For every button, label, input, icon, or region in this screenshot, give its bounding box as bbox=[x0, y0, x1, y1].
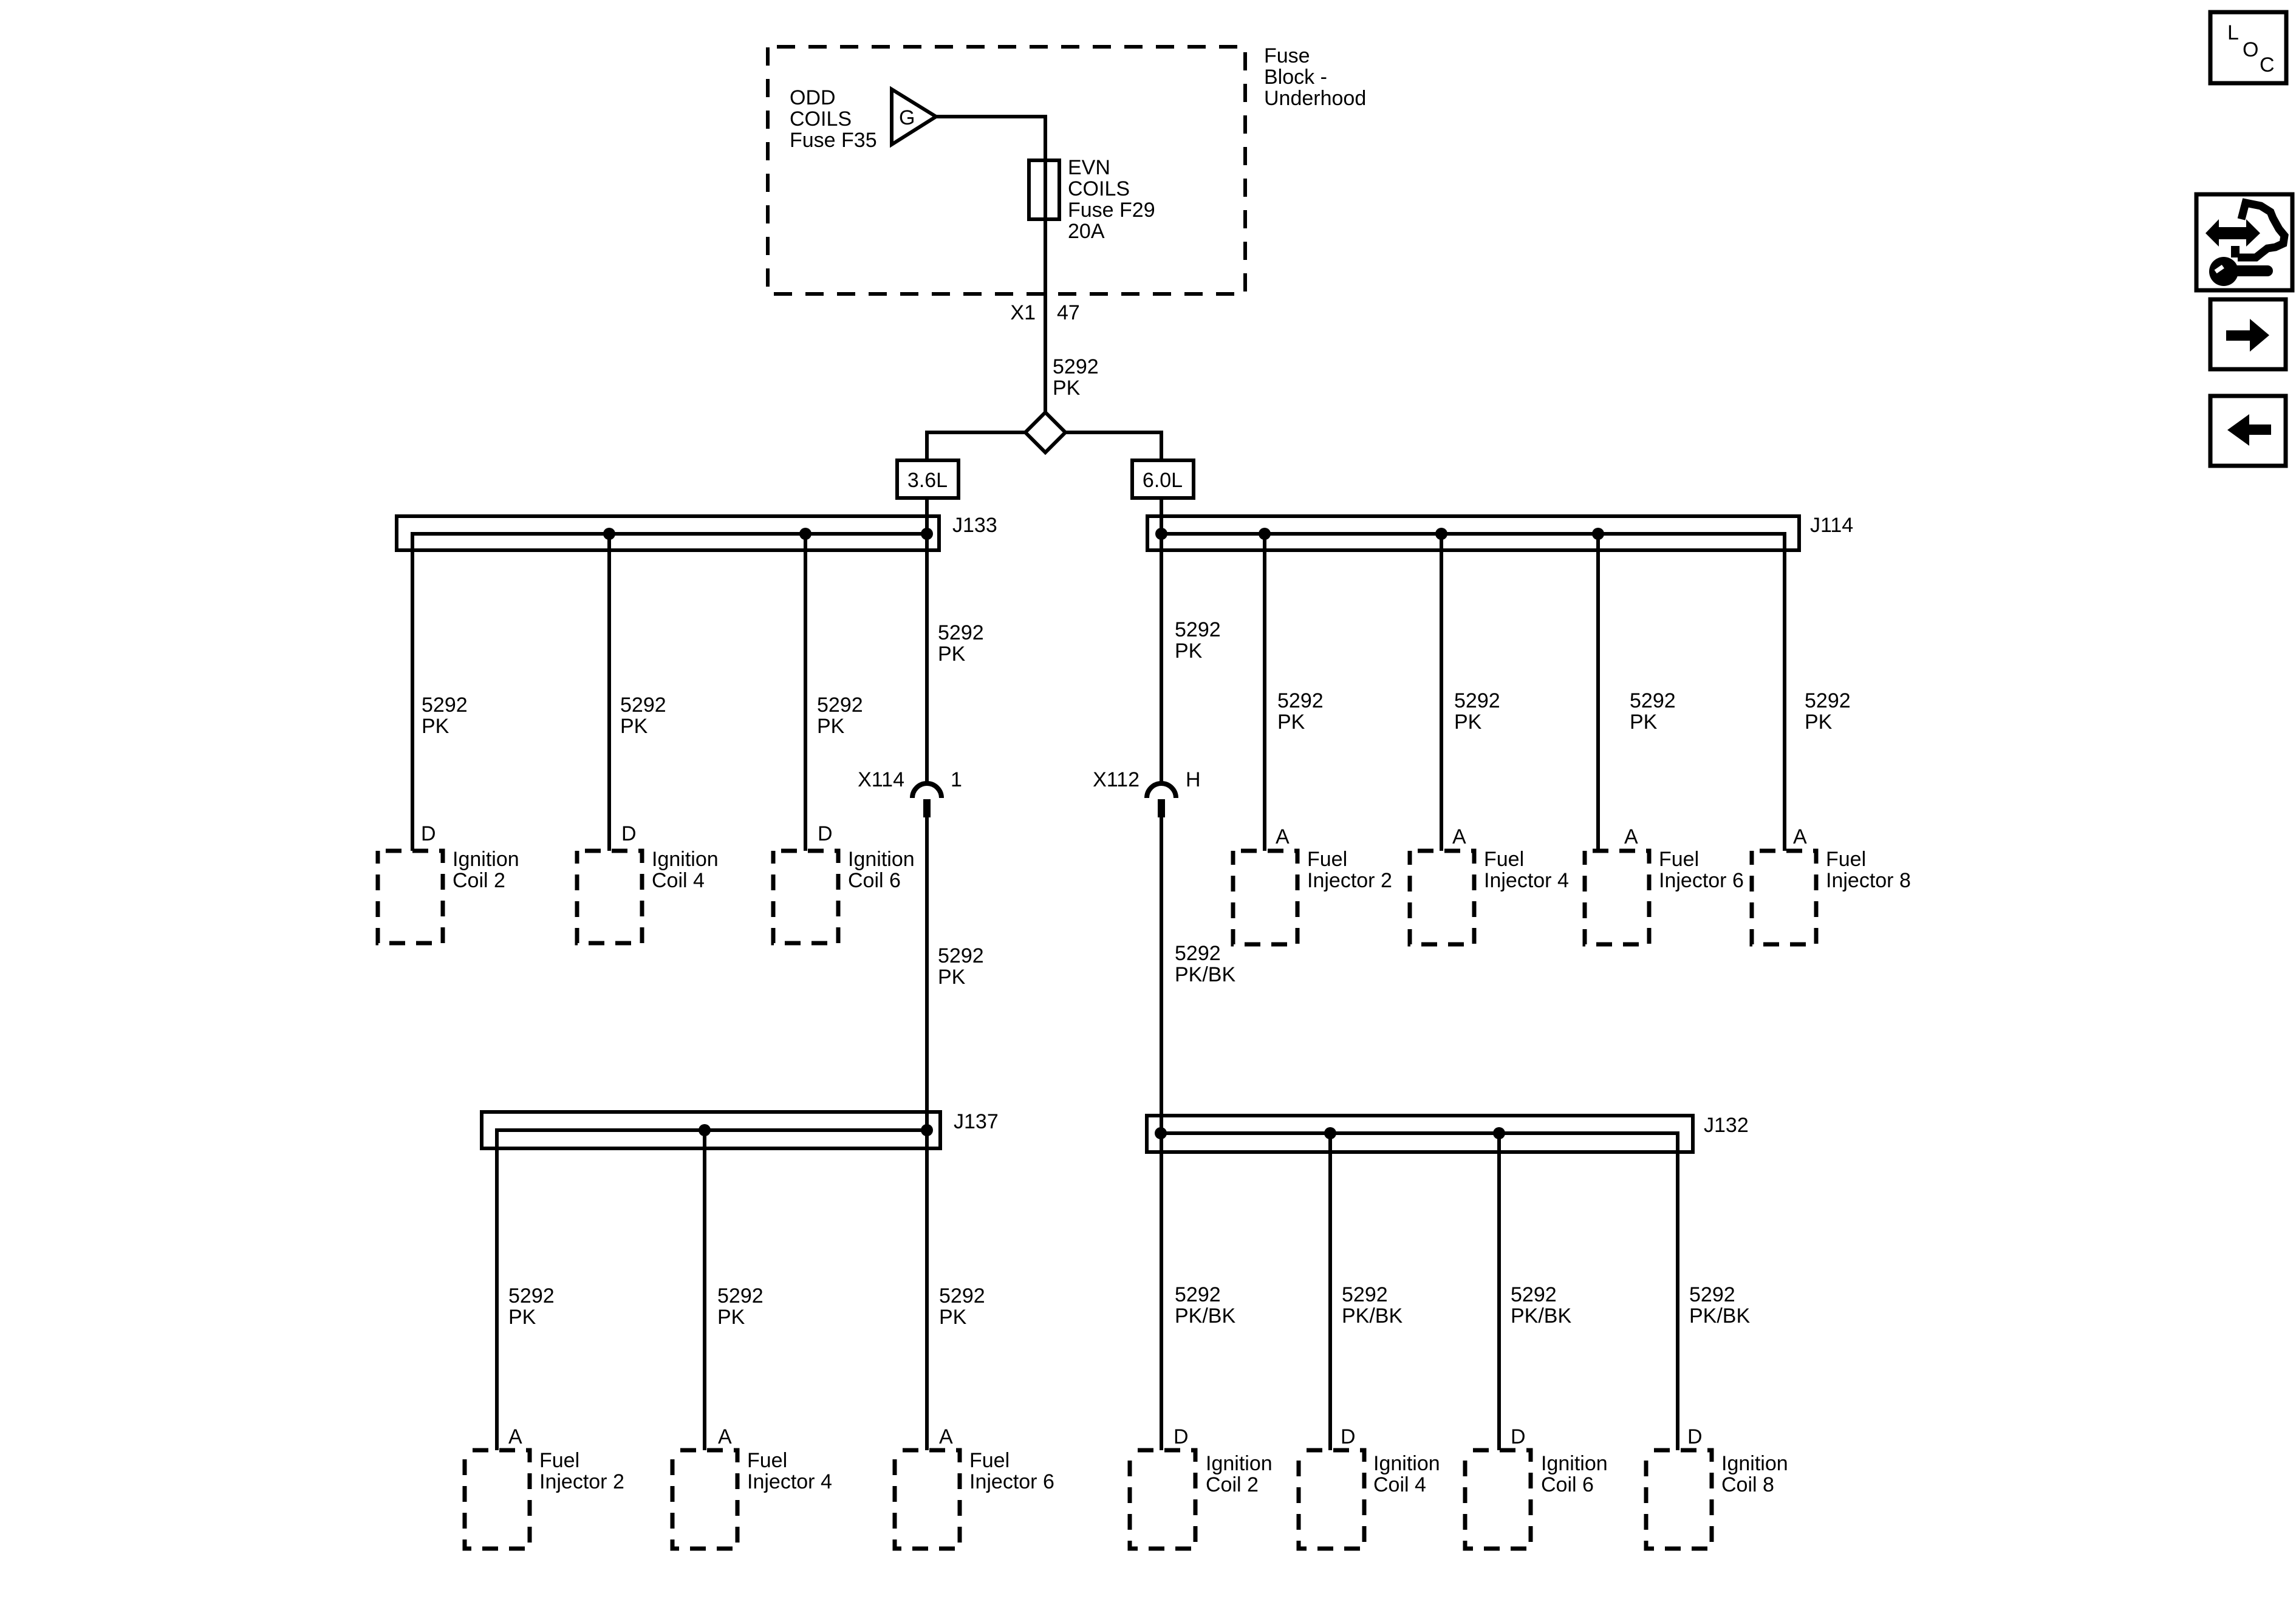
fuel injector 2 (dashed box) bbox=[1233, 851, 1297, 944]
svg-text:Fuel: Fuel bbox=[1826, 848, 1866, 871]
svg-text:PK/BK: PK/BK bbox=[1175, 1304, 1235, 1328]
wire label 5292 PK (J114 to X112 wire) bbox=[1175, 618, 1221, 663]
svg-text:5292: 5292 bbox=[1342, 1283, 1388, 1306]
svg-text:5292: 5292 bbox=[1630, 689, 1676, 712]
svg-text:Injector 2: Injector 2 bbox=[539, 1470, 624, 1493]
label: Fuse Block - Underhood bbox=[1264, 44, 1366, 110]
svg-text:PK/BK: PK/BK bbox=[1511, 1304, 1571, 1328]
svg-text:Ignition: Ignition bbox=[848, 848, 915, 871]
svg-text:Ignition: Ignition bbox=[1206, 1452, 1273, 1475]
wire label 5292 PK bbox=[717, 1284, 764, 1329]
icon: arrow left bbox=[2210, 396, 2286, 466]
svg-text:5292: 5292 bbox=[1175, 1283, 1221, 1306]
svg-text:Ignition: Ignition bbox=[1373, 1452, 1440, 1475]
svg-text:D: D bbox=[621, 822, 637, 845]
svg-text:PK: PK bbox=[817, 715, 845, 738]
svg-text:PK: PK bbox=[1053, 377, 1081, 400]
label: Fuel Injector 6 bbox=[969, 1449, 1054, 1493]
svg-text:D: D bbox=[818, 822, 833, 845]
svg-text:5292: 5292 bbox=[620, 694, 666, 717]
wire label 5292 PK (J133 to X114 wire) bbox=[938, 621, 984, 666]
svg-text:5292: 5292 bbox=[939, 1284, 985, 1307]
wire label 5292 PK bbox=[422, 694, 468, 738]
splice J114 bbox=[1147, 516, 1799, 851]
label: Fuel Injector 6 bbox=[1659, 848, 1744, 892]
svg-text:5292: 5292 bbox=[422, 694, 468, 717]
wire label 5292 PK/BK bbox=[1689, 1283, 1750, 1328]
wire label 5292 PK/BK bbox=[1342, 1283, 1403, 1328]
ignition coil 2 (dashed box) bbox=[378, 851, 443, 943]
svg-text:D: D bbox=[1687, 1425, 1703, 1448]
svg-text:A: A bbox=[1624, 825, 1638, 848]
svg-text:5292: 5292 bbox=[1689, 1283, 1735, 1306]
svg-text:A: A bbox=[939, 1425, 953, 1448]
svg-text:PK: PK bbox=[508, 1306, 536, 1329]
wire label 5292 PK/BK bbox=[1175, 1283, 1235, 1328]
svg-text:D: D bbox=[1341, 1425, 1356, 1448]
svg-text:Ignition: Ignition bbox=[652, 848, 719, 871]
wire: J114 to fuel injector 6 bbox=[1596, 534, 1600, 851]
svg-text:Ignition: Ignition bbox=[1541, 1452, 1608, 1475]
wire label 5292 PK bbox=[620, 694, 666, 738]
svg-text:20A: 20A bbox=[1068, 220, 1105, 243]
label: Ignition Coil 2 bbox=[453, 848, 519, 892]
wire label 5292 PK bbox=[1277, 689, 1324, 734]
wire label 5292 PK bbox=[1805, 689, 1851, 734]
svg-text:Coil 8: Coil 8 bbox=[1721, 1473, 1774, 1496]
option box 6.0L bbox=[1132, 460, 1194, 498]
svg-text:5292: 5292 bbox=[717, 1284, 764, 1307]
svg-text:Fuel: Fuel bbox=[969, 1449, 1010, 1472]
connector X1 pin 47 bbox=[1010, 301, 1079, 324]
svg-text:Injector 6: Injector 6 bbox=[969, 1470, 1054, 1493]
svg-text:Ignition: Ignition bbox=[1721, 1452, 1788, 1475]
wire: J132 to ignition coil 4 bbox=[1328, 1133, 1332, 1450]
splice J137 bbox=[482, 1112, 940, 1450]
fuel injector 6 lower (dashed box) bbox=[895, 1450, 960, 1549]
wire: diamond to 3.6L branch bbox=[927, 432, 1025, 460]
svg-text:COILS: COILS bbox=[1068, 177, 1130, 200]
svg-text:Coil 6: Coil 6 bbox=[848, 869, 901, 892]
label: Ignition Coil 4 bbox=[652, 848, 719, 892]
svg-text:47: 47 bbox=[1057, 301, 1080, 324]
svg-text:5292: 5292 bbox=[1511, 1283, 1557, 1306]
wire label 5292 PK bbox=[1454, 689, 1500, 734]
wire label 5292 PK bbox=[939, 1284, 985, 1329]
svg-text:Fuse F35: Fuse F35 bbox=[790, 129, 877, 152]
label: Ignition Coil 2 bbox=[1206, 1452, 1273, 1496]
fuel injector 6 (dashed box) bbox=[1585, 851, 1649, 944]
svg-text:PK: PK bbox=[1175, 639, 1203, 663]
svg-text:Fuse F29: Fuse F29 bbox=[1068, 199, 1155, 222]
svg-text:A: A bbox=[508, 1425, 522, 1448]
wire: J133 to ignition coil 6 bbox=[804, 534, 807, 851]
svg-text:Coil 4: Coil 4 bbox=[1373, 1473, 1426, 1496]
splice J133 bbox=[397, 516, 939, 851]
wire: J133 to ignition coil 4 bbox=[607, 534, 611, 851]
svg-text:PK/BK: PK/BK bbox=[1175, 963, 1235, 986]
wire: fusible link G through fuse F29 down to splice diamond bbox=[936, 117, 1045, 413]
svg-text:PK: PK bbox=[717, 1306, 745, 1329]
wire: 3.6L box through splice J133 down to connector X114 bbox=[925, 498, 929, 783]
svg-text:X1: X1 bbox=[1010, 301, 1036, 324]
svg-text:A: A bbox=[718, 1425, 732, 1448]
svg-text:Fuel: Fuel bbox=[1307, 848, 1347, 871]
svg-text:Injector 4: Injector 4 bbox=[1484, 869, 1569, 892]
svg-text:PK: PK bbox=[1805, 711, 1833, 734]
svg-text:X114: X114 bbox=[858, 768, 904, 791]
svg-text:PK/BK: PK/BK bbox=[1342, 1304, 1403, 1328]
svg-text:Coil 6: Coil 6 bbox=[1541, 1473, 1594, 1496]
svg-text:C: C bbox=[2260, 53, 2275, 77]
svg-text:Injector 2: Injector 2 bbox=[1307, 869, 1392, 892]
svg-text:G: G bbox=[899, 106, 915, 129]
fusible link G (ODD COILS Fuse F35) bbox=[892, 89, 936, 145]
label: Fuel Injector 4 bbox=[1484, 848, 1569, 892]
ignition coil 6 (dashed box) bbox=[773, 851, 838, 943]
label: Ignition Coil 6 bbox=[1541, 1452, 1608, 1496]
svg-text:D: D bbox=[421, 822, 436, 845]
svg-text:Coil 2: Coil 2 bbox=[1206, 1473, 1259, 1496]
svg-text:Fuel: Fuel bbox=[1659, 848, 1699, 871]
svg-text:5292: 5292 bbox=[508, 1284, 555, 1307]
label: ODD COILS Fuse F35 bbox=[790, 86, 877, 152]
svg-text:5292: 5292 bbox=[1805, 689, 1851, 712]
wire label 5292 PK bbox=[1630, 689, 1676, 734]
svg-text:Fuse: Fuse bbox=[1264, 44, 1310, 67]
svg-text:Fuel: Fuel bbox=[1484, 848, 1524, 871]
svg-text:Underhood: Underhood bbox=[1264, 87, 1366, 110]
svg-text:A: A bbox=[1452, 825, 1466, 848]
svg-text:5292: 5292 bbox=[1277, 689, 1324, 712]
icon: LOC box bbox=[2210, 12, 2286, 83]
label: Fuel Injector 4 bbox=[747, 1449, 832, 1493]
splice J132 bbox=[1147, 1116, 1693, 1450]
splice diamond bbox=[1025, 412, 1065, 452]
wire label 5292 PK bbox=[817, 694, 863, 738]
fuse block - underhood (dashed outline) bbox=[768, 47, 1245, 294]
svg-text:A: A bbox=[1276, 825, 1290, 848]
wire: J137 to fuel injector 4 bbox=[703, 1130, 706, 1450]
svg-text:PK: PK bbox=[938, 966, 966, 989]
svg-text:J137: J137 bbox=[954, 1110, 999, 1133]
wire: J114 to fuel injector 2 bbox=[1263, 534, 1266, 851]
wire: J132 to ignition coil 6 bbox=[1497, 1133, 1501, 1450]
label: Fuel Injector 2 bbox=[1307, 848, 1392, 892]
svg-text:COILS: COILS bbox=[790, 107, 852, 131]
svg-text:A: A bbox=[1793, 825, 1807, 848]
svg-text:5292: 5292 bbox=[1454, 689, 1500, 712]
svg-text:PK: PK bbox=[939, 1306, 967, 1329]
wire: 6.0L box through splice J114 down to connector X112 bbox=[1160, 498, 1163, 783]
wire: J114 to fuel injector 4 bbox=[1440, 534, 1443, 851]
svg-text:Coil 2: Coil 2 bbox=[453, 869, 505, 892]
wire label 5292 PK bbox=[508, 1284, 555, 1329]
svg-text:X112: X112 bbox=[1093, 768, 1139, 791]
fuel injector 8 (dashed box) bbox=[1752, 851, 1816, 944]
fuel injector 4 lower (dashed box) bbox=[672, 1450, 737, 1549]
svg-text:EVN: EVN bbox=[1068, 156, 1110, 179]
svg-text:J114: J114 bbox=[1810, 514, 1853, 537]
svg-text:Block -: Block - bbox=[1264, 66, 1327, 89]
svg-text:Injector 6: Injector 6 bbox=[1659, 869, 1744, 892]
fuel injector 4 (dashed box) bbox=[1410, 851, 1474, 944]
wire label 5292 PK/BK bbox=[1511, 1283, 1571, 1328]
ignition coil 4 lower (dashed box) bbox=[1299, 1450, 1364, 1549]
svg-text:PK: PK bbox=[1630, 711, 1658, 734]
svg-text:Fuel: Fuel bbox=[539, 1449, 579, 1472]
svg-text:5292: 5292 bbox=[1175, 942, 1221, 965]
svg-text:5292: 5292 bbox=[1053, 355, 1099, 378]
svg-text:O: O bbox=[2243, 38, 2258, 61]
label: Ignition Coil 6 bbox=[848, 848, 915, 892]
svg-text:5292: 5292 bbox=[817, 694, 863, 717]
svg-text:D: D bbox=[1174, 1425, 1189, 1448]
svg-text:Injector 8: Injector 8 bbox=[1826, 869, 1911, 892]
wire: diamond to 6.0L branch bbox=[1065, 432, 1161, 460]
svg-text:H: H bbox=[1186, 768, 1201, 791]
label: Ignition Coil 4 bbox=[1373, 1452, 1440, 1496]
ignition coil 6 lower (dashed box) bbox=[1465, 1450, 1531, 1549]
fuel injector 2 lower (dashed box) bbox=[465, 1450, 530, 1549]
svg-text:1: 1 bbox=[951, 768, 962, 791]
svg-text:Coil 4: Coil 4 bbox=[652, 869, 705, 892]
svg-text:PK: PK bbox=[422, 715, 449, 738]
wire: X114 to splice J137 and through to fuel injector 6 bbox=[925, 817, 929, 1450]
svg-text:PK: PK bbox=[938, 643, 966, 666]
svg-text:L: L bbox=[2227, 21, 2239, 44]
svg-text:J133: J133 bbox=[952, 514, 997, 537]
wire label 5292 PK bbox=[938, 944, 984, 989]
svg-text:Ignition: Ignition bbox=[453, 848, 519, 871]
svg-text:J132: J132 bbox=[1704, 1114, 1749, 1137]
ignition coil 2 lower (dashed box) bbox=[1130, 1450, 1195, 1549]
label: Fuel Injector 2 bbox=[539, 1449, 624, 1493]
fuse F29 (EVN COILS 20A) bbox=[1029, 160, 1059, 219]
wire label 5292 PK bbox=[1053, 355, 1099, 400]
svg-text:PK: PK bbox=[1277, 711, 1305, 734]
wire label 5292 PK/BK bbox=[1175, 942, 1235, 986]
svg-text:Injector 4: Injector 4 bbox=[747, 1470, 832, 1493]
svg-text:D: D bbox=[1511, 1425, 1526, 1448]
svg-text:6.0L: 6.0L bbox=[1143, 469, 1183, 492]
svg-text:3.6L: 3.6L bbox=[907, 469, 948, 492]
svg-text:PK: PK bbox=[620, 715, 648, 738]
label: Fuel Injector 8 bbox=[1826, 848, 1911, 892]
label: Ignition Coil 8 bbox=[1721, 1452, 1788, 1496]
ignition coil 4 (dashed box) bbox=[577, 851, 642, 943]
ignition coil 8 lower (dashed box) bbox=[1646, 1450, 1712, 1549]
svg-text:5292: 5292 bbox=[938, 621, 984, 644]
connector X114 pin 1 bbox=[858, 768, 962, 817]
icon: arrow right bbox=[2210, 299, 2286, 369]
svg-text:PK/BK: PK/BK bbox=[1689, 1304, 1750, 1328]
label: EVN COILS Fuse F29 20A bbox=[1068, 156, 1155, 243]
option box 3.6L bbox=[897, 460, 958, 498]
svg-text:ODD: ODD bbox=[790, 86, 836, 109]
wire: X112 to splice J132 and through to ignition coil 2 bbox=[1160, 817, 1163, 1450]
svg-text:5292: 5292 bbox=[938, 944, 984, 967]
connector X112 pin H bbox=[1093, 768, 1200, 817]
svg-text:PK: PK bbox=[1454, 711, 1482, 734]
svg-text:Fuel: Fuel bbox=[747, 1449, 787, 1472]
icon: power distribution (arrows and key) bbox=[2196, 194, 2292, 290]
svg-text:5292: 5292 bbox=[1175, 618, 1221, 641]
